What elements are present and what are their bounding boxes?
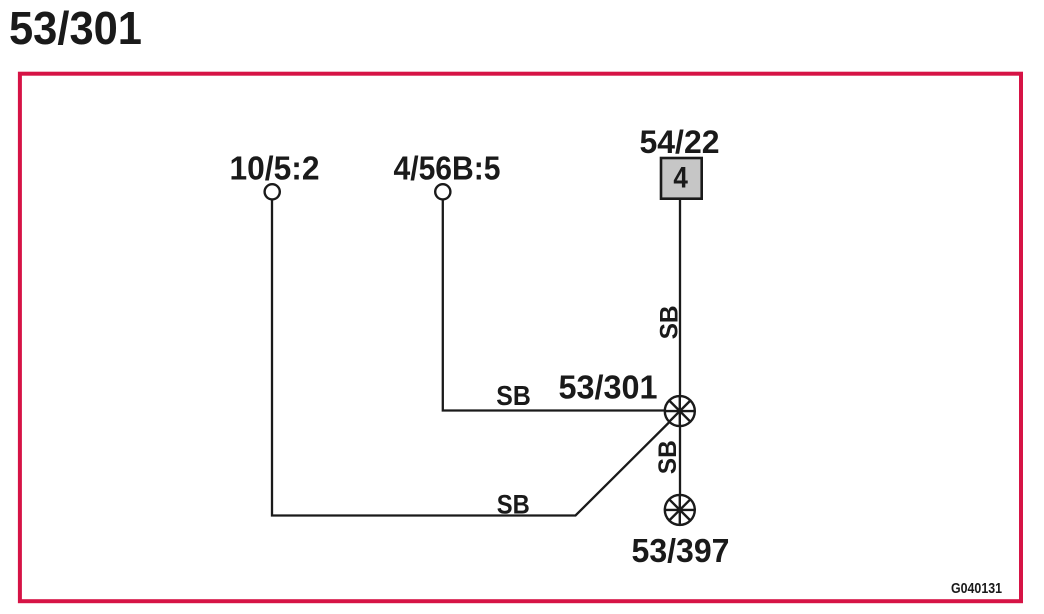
wire from connector 54/22 down through node 53/301 to node 53/397 — [679, 199, 681, 524]
svg-text:SB: SB — [497, 489, 530, 519]
wire from 4/56B:5 down and right to node 53/301 — [443, 200, 680, 410]
wire from 10/5:2 down and right to diagonal — [272, 200, 680, 515]
svg-text:53/301: 53/301 — [9, 2, 142, 54]
splice node 53/301 — [665, 396, 695, 426]
svg-text:53/397: 53/397 — [632, 533, 730, 570]
terminal circle 10/5:2 — [265, 184, 280, 199]
terminal circle 4/56B:5 — [435, 184, 450, 199]
svg-text:4: 4 — [673, 161, 688, 194]
svg-text:SB: SB — [654, 440, 682, 474]
svg-text:SB: SB — [496, 380, 531, 411]
svg-text:54/22: 54/22 — [640, 124, 720, 160]
svg-text:SB: SB — [656, 305, 684, 339]
svg-text:G040131: G040131 — [951, 581, 1002, 597]
svg-text:10/5:2: 10/5:2 — [230, 151, 320, 188]
connector box 54/22 pin 4 — [661, 158, 702, 199]
svg-text:4/56B:5: 4/56B:5 — [394, 151, 501, 188]
svg-text:53/301: 53/301 — [559, 370, 658, 407]
splice node 53/397 — [665, 495, 695, 525]
